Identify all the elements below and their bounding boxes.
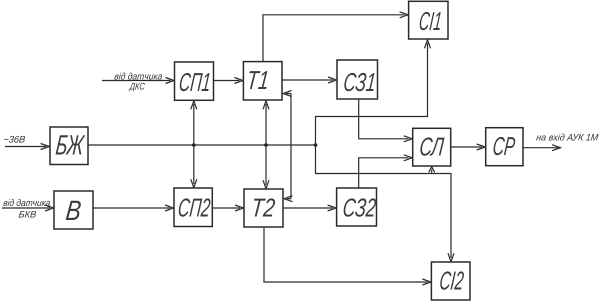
- wire input from sensor DKS to SP1: [102, 78, 174, 84]
- wire T2 to SZ2: [283, 205, 336, 211]
- wire T1 to SZ1: [282, 77, 337, 83]
- wire input ~36V to BZh: [5, 144, 50, 150]
- wire input from sensor BKV to V: [2, 205, 54, 211]
- wire bus to T1 bottom: [263, 101, 269, 145]
- svg-text:від датчика: від датчика: [3, 198, 51, 209]
- svg-text:СІ2: СІ2: [438, 266, 465, 296]
- block T1: [243, 62, 282, 100]
- block SP1: [175, 62, 214, 100]
- block SZ1: [337, 60, 378, 99]
- block BZh power supply: [50, 127, 88, 165]
- wire bus to SP1 bottom: [191, 101, 197, 145]
- block T2: [244, 189, 283, 227]
- block V: [54, 191, 93, 229]
- svg-text:СЗ2: СЗ2: [341, 192, 377, 222]
- svg-text:ДКС: ДКС: [128, 82, 145, 93]
- svg-text:Т1: Т1: [245, 65, 270, 95]
- wire stub to SL bottom: [429, 167, 435, 174]
- wire SP1 to T1: [214, 78, 243, 84]
- wire T2 bottom to SI2: [264, 227, 431, 285]
- wire T1 top to SI1: [263, 12, 408, 62]
- svg-text:~36В: ~36В: [3, 135, 27, 146]
- svg-text:БЖ: БЖ: [54, 130, 86, 161]
- block SR: [486, 128, 523, 166]
- svg-text:Т2: Т2: [250, 193, 277, 223]
- wire bracket lower branch to SI2 top: [316, 145, 455, 262]
- wire cross-coupling T1 right to T2 right: [283, 91, 293, 202]
- svg-text:на вхід АУК 1М: на вхід АУК 1М: [536, 132, 599, 143]
- wire SZ2 top to SL lower input: [359, 155, 413, 188]
- block SI1: [409, 1, 448, 39]
- wire bus to T2 top: [263, 145, 269, 189]
- block SL: [413, 128, 451, 166]
- junction dot at bracket split: [314, 143, 318, 147]
- svg-text:СЗ1: СЗ1: [342, 67, 377, 97]
- wire SP2 to T2: [212, 205, 243, 211]
- wire SZ1 bottom to SL upper input: [359, 99, 413, 142]
- block SI2: [431, 262, 470, 300]
- svg-text:СІ1: СІ1: [418, 6, 444, 36]
- junction dot at SP vertical: [192, 143, 196, 147]
- wire bus to SP2 top: [191, 145, 197, 188]
- wire bracket upper branch to SI1 bottom: [316, 40, 431, 145]
- svg-text:СП2: СП2: [177, 192, 212, 222]
- block SP2: [174, 188, 212, 227]
- svg-text:СП1: СП1: [178, 67, 213, 97]
- block SZ2: [337, 188, 378, 226]
- svg-text:СЛ: СЛ: [418, 132, 445, 162]
- svg-text:СР: СР: [491, 131, 517, 161]
- junction dot at T vertical: [264, 143, 268, 147]
- wire SL to SR: [451, 144, 486, 150]
- wire SR to output: [523, 145, 561, 151]
- svg-text:БКВ: БКВ: [18, 210, 37, 221]
- wire V to SP2: [93, 205, 174, 211]
- wire bus from BZh output: [88, 144, 316, 146]
